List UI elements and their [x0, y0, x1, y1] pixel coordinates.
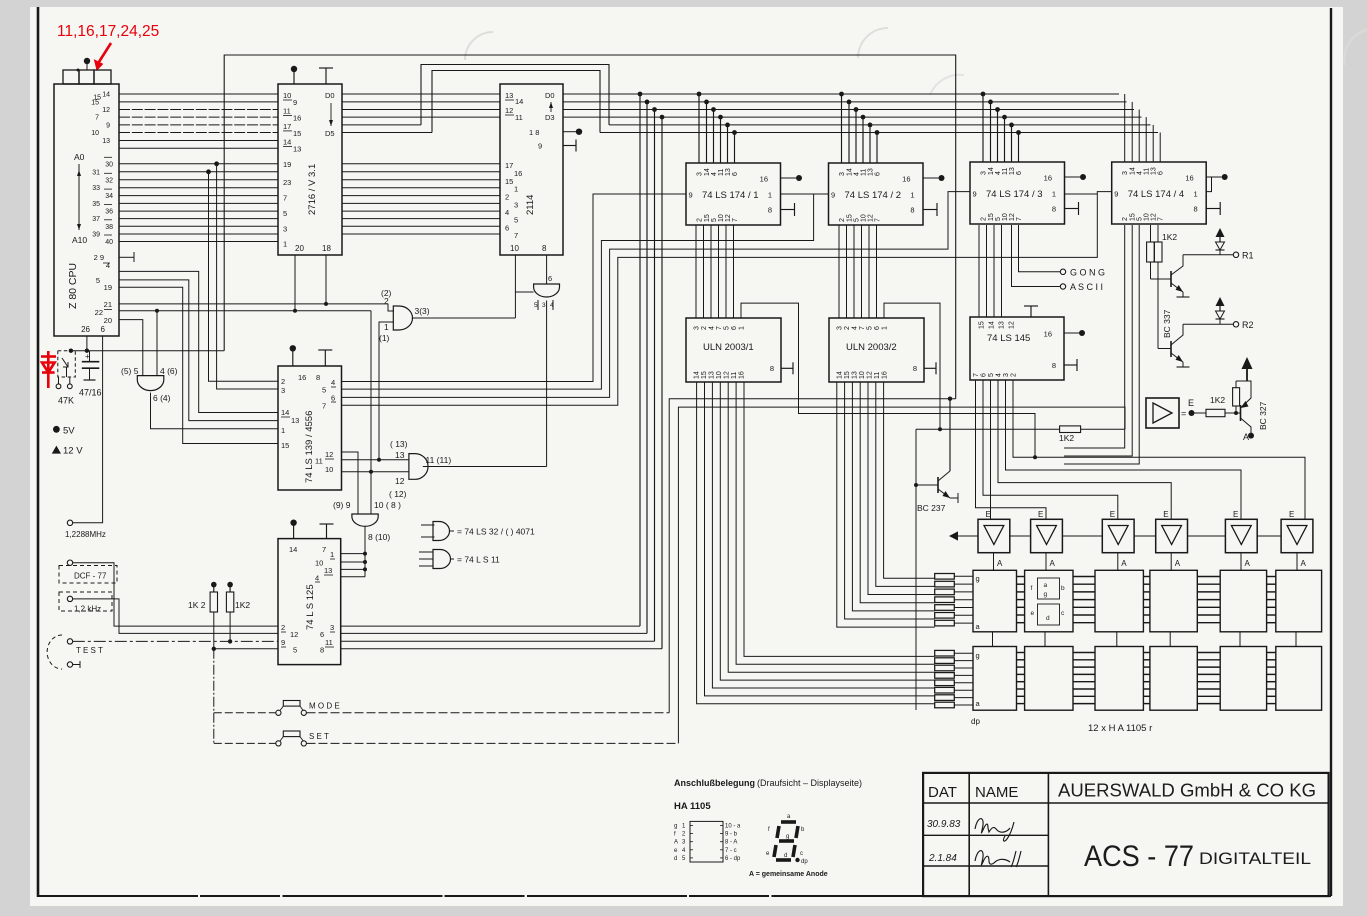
- svg-text:d: d: [674, 856, 677, 862]
- segment connector ladder row2: [935, 650, 955, 656]
- display module row1 D3: [1095, 570, 1143, 632]
- svg-text:3: 3: [1003, 373, 1010, 377]
- svg-text:R1: R1: [1242, 251, 1254, 261]
- svg-text:8: 8: [316, 373, 320, 382]
- svg-text:12: 12: [102, 107, 110, 114]
- svg-text:12 V: 12 V: [63, 446, 83, 457]
- svg-text:2114: 2114: [525, 195, 536, 215]
- wire 1.2kHz to 74LS125 pin12: [73, 599, 278, 634]
- latch 74LS174/1 body: [686, 163, 781, 225]
- junction dots on address lines feeding decoder: [206, 169, 211, 174]
- svg-text:12: 12: [868, 214, 875, 222]
- 74LS125 top power T: [326, 524, 328, 539]
- display module row1 D4: [1150, 570, 1197, 632]
- display module row1 D5: [1220, 570, 1266, 632]
- svg-text:21: 21: [104, 300, 112, 309]
- svg-text:E: E: [1233, 510, 1238, 519]
- svg-text:E: E: [1289, 510, 1294, 519]
- svg-text:9 - b: 9 - b: [725, 832, 738, 838]
- svg-text:Z 80 CPU: Z 80 CPU: [67, 263, 79, 309]
- svg-text:13: 13: [999, 321, 1006, 329]
- title block outer frame: [923, 773, 1329, 896]
- 74LS174/3 outputs into 74LS145: [978, 225, 980, 317]
- svg-text:10: 10: [91, 130, 99, 137]
- wire G2 lower input from below: [379, 322, 394, 460]
- svg-text:17: 17: [505, 161, 513, 170]
- svg-text:5: 5: [534, 302, 538, 309]
- resistor R 1K2 pair below 74LS174/4: [1150, 225, 1152, 242]
- buffer legend box with triangle: [1146, 398, 1179, 428]
- svg-text:g: g: [976, 574, 980, 583]
- wire 74LS174/4 spare outputs down: [1064, 225, 1125, 448]
- svg-text:32: 32: [105, 177, 113, 184]
- wire Z80 pin19 to 74LS139 pin15: [119, 287, 278, 443]
- svg-text:7: 7: [875, 218, 882, 222]
- svg-text:4: 4: [505, 208, 509, 217]
- svg-text:47/16: 47/16: [79, 388, 102, 398]
- svg-text:6: 6: [101, 325, 106, 334]
- svg-text:6: 6: [875, 172, 882, 176]
- wire Z80 pin22 branch to AND gate input: [156, 311, 158, 376]
- wire direct enable to buffer 1: [990, 380, 992, 519]
- svg-text:1: 1: [882, 326, 889, 330]
- svg-text:11: 11: [718, 169, 725, 176]
- wire address bus Z80 to 2716 (11 lines): [119, 163, 278, 165]
- svg-text:1: 1: [283, 240, 287, 249]
- wire select rail 4 from 74LS139 pin7 to 74LS174/4 pin9: [342, 192, 1112, 406]
- wire D4 stub left of 2114 bracket: [342, 124, 421, 126]
- svg-text:11: 11: [861, 169, 868, 176]
- svg-text:17: 17: [283, 122, 291, 131]
- svg-text:14: 14: [515, 97, 523, 106]
- diode D2 to R2 with 12V arrow: [1216, 297, 1225, 306]
- svg-text:1K2: 1K2: [1210, 395, 1225, 405]
- wire TEST to 74LS125 pin9: [73, 640, 278, 642]
- inter-digit segment hatches row1: [1017, 576, 1025, 578]
- svg-text:1: 1: [514, 185, 518, 194]
- svg-text:74 LS 174 / 2: 74 LS 174 / 2: [845, 190, 902, 201]
- svg-text:4: 4: [106, 261, 110, 270]
- display enable staircase wires: [976, 380, 1047, 519]
- svg-text:DCF - 77: DCF - 77: [74, 572, 107, 581]
- wire 74LS125 pin5 row: [214, 648, 278, 650]
- wire D4 bracket over 2114: [421, 65, 609, 125]
- svg-text:4 (6): 4 (6): [160, 366, 178, 376]
- svg-text:D0: D0: [545, 91, 555, 100]
- svg-text:AUERSWALD GmbH & CO KG: AUERSWALD GmbH & CO KG: [1058, 781, 1316, 801]
- wire G3 output to 2114 write gate: [423, 466, 547, 468]
- svg-text:10: 10: [1002, 213, 1009, 221]
- svg-text:16: 16: [514, 169, 522, 178]
- svg-text:14: 14: [283, 138, 291, 147]
- svg-text:74 LS 145: 74 LS 145: [987, 333, 1030, 344]
- svg-text:G O N G: G O N G: [1070, 268, 1105, 278]
- svg-text:16: 16: [1044, 330, 1052, 339]
- svg-text:15: 15: [844, 371, 851, 379]
- svg-text:11: 11: [515, 113, 523, 122]
- svg-text:1: 1: [1052, 190, 1056, 199]
- driver ULN2003/1 body: [686, 318, 781, 382]
- svg-text:5: 5: [293, 646, 297, 655]
- svg-text:g: g: [976, 651, 980, 660]
- svg-text:1K 2: 1K 2: [188, 600, 206, 610]
- svg-text:16: 16: [1044, 174, 1052, 183]
- svg-text:6 (4): 6 (4): [153, 393, 171, 403]
- diode D1 to R1 with 12V arrow: [1216, 228, 1225, 237]
- data bus drops into 74LS174/4 (line ends): [1124, 93, 1126, 95]
- svg-text:4: 4: [709, 326, 716, 330]
- svg-text:38: 38: [105, 224, 113, 231]
- ULN2003/1 outputs to lower display row (7 wires): [744, 382, 935, 656]
- display buffer B3 box: [1102, 519, 1134, 552]
- svg-text:4: 4: [995, 171, 1002, 175]
- svg-text:A10: A10: [72, 235, 87, 245]
- wire 74LS139 pin12 to G4 input: [342, 452, 359, 514]
- svg-text:E: E: [986, 510, 991, 519]
- svg-text:5: 5: [96, 276, 100, 285]
- svg-text:14: 14: [988, 167, 995, 175]
- svg-text:= 74 L S 11: = 74 L S 11: [457, 555, 500, 565]
- svg-text:74 LS 139 / 4556: 74 LS 139 / 4556: [304, 411, 315, 483]
- display module row2 D10: [1150, 647, 1197, 711]
- buffer B4 output wire to display: [1170, 553, 1172, 571]
- 74LS125 top 5V dot: [293, 523, 295, 539]
- or gate G2 3(3): [393, 306, 412, 330]
- wire upper bus Z80 to 2716 (8 lines): [119, 93, 278, 95]
- svg-text:30: 30: [105, 161, 113, 168]
- svg-text:Anschlußbelegung: Anschlußbelegung: [674, 778, 755, 788]
- switch MODE: [213, 649, 215, 744]
- svg-text:+: +: [85, 352, 90, 361]
- svg-text:30.9.83: 30.9.83: [927, 819, 961, 830]
- resistor 1K2 pullup left: [213, 585, 215, 592]
- wire 74LS125 enable links: [341, 553, 365, 555]
- svg-text:( 13): ( 13): [390, 439, 408, 449]
- svg-text:4: 4: [854, 172, 861, 176]
- svg-text:33: 33: [92, 185, 100, 192]
- svg-text:3: 3: [694, 326, 701, 330]
- wire address A0 to 74LS139 pin2: [209, 172, 279, 381]
- svg-text:11: 11: [1002, 168, 1009, 175]
- svg-text:8: 8: [768, 206, 772, 215]
- svg-text:12: 12: [725, 214, 732, 222]
- svg-text:E: E: [1038, 510, 1043, 519]
- svg-text:5: 5: [988, 373, 995, 377]
- ram U3 2114 body: [500, 84, 563, 255]
- svg-text:3(3): 3(3): [415, 306, 430, 316]
- svg-text:3: 3: [837, 326, 844, 330]
- buffer U5 74LS125 body: [278, 539, 341, 665]
- svg-text:36: 36: [105, 209, 113, 216]
- svg-text:2 9: 2 9: [94, 253, 104, 262]
- svg-text:3: 3: [1122, 171, 1129, 175]
- svg-text:11: 11: [874, 372, 881, 379]
- svg-text:D3: D3: [545, 113, 555, 122]
- svg-text:g: g: [674, 824, 677, 830]
- inter-digit segment hatches row2: [1017, 652, 1025, 654]
- svg-text:c: c: [800, 851, 803, 857]
- svg-text:2: 2: [1122, 217, 1129, 221]
- terminal ASCII: [1012, 225, 1061, 287]
- power legend 5V: [53, 426, 60, 433]
- display module row1 D2: [1025, 570, 1073, 632]
- display module row1 D1: [973, 570, 1017, 632]
- svg-text:10: 10: [861, 214, 868, 222]
- svg-text:5: 5: [283, 209, 287, 218]
- svg-text:10: 10: [510, 244, 519, 253]
- LED red indicator: [41, 351, 56, 388]
- svg-text:2: 2: [844, 326, 851, 330]
- svg-text:E: E: [1188, 398, 1194, 408]
- svg-text:16: 16: [1185, 174, 1193, 183]
- verticals 74LS174/2 outputs to ULN2003/2 inputs: [838, 225, 840, 318]
- svg-text:A: A: [1243, 432, 1249, 442]
- svg-text:(5) 5: (5) 5: [121, 366, 139, 376]
- and gate G3 11(11): [409, 454, 428, 480]
- transistor BC327 legend: [1236, 412, 1241, 414]
- svg-text:13: 13: [291, 416, 299, 425]
- svg-text:13: 13: [709, 371, 716, 379]
- svg-text:12: 12: [867, 371, 874, 379]
- svg-text:7: 7: [95, 115, 99, 122]
- svg-text:DAT: DAT: [928, 784, 957, 801]
- svg-text:12: 12: [724, 371, 731, 379]
- svg-text:DIGITALTEIL: DIGITALTEIL: [1199, 849, 1311, 868]
- svg-text:dp: dp: [801, 859, 808, 865]
- latch 74LS174/4 body: [1112, 162, 1207, 224]
- svg-text:40: 40: [105, 239, 113, 246]
- display buffer B1 box: [978, 519, 1010, 552]
- terminal DCF-77 with dashed box: [67, 560, 72, 565]
- legend 12V arrow at BC327 collector: [1236, 380, 1247, 382]
- svg-text:3: 3: [281, 386, 285, 395]
- power legend 12V: [52, 446, 61, 454]
- svg-text:2716 / V 3.1: 2716 / V 3.1: [307, 164, 318, 215]
- svg-text:11,16,17,24,25: 11,16,17,24,25: [57, 23, 159, 40]
- wire 2716 pin18 stub down: [325, 255, 327, 304]
- terminal TEST with dashed frame: [67, 639, 72, 644]
- svg-text:35: 35: [92, 201, 100, 208]
- svg-text:1K2: 1K2: [1059, 433, 1074, 443]
- terminal 1.2kHz with dashed box: [67, 596, 72, 601]
- title block row lines: [923, 802, 1329, 804]
- svg-text:14: 14: [704, 168, 711, 176]
- svg-text:5: 5: [854, 218, 861, 222]
- svg-text:14: 14: [1130, 167, 1137, 175]
- svg-text:16: 16: [298, 373, 306, 382]
- wire Z80 pin4 to 74LS139 pin14: [119, 271, 278, 412]
- 74LS145 top power T: [1030, 306, 1032, 317]
- terminal GONG: [1019, 225, 1061, 272]
- svg-text:22: 22: [95, 308, 103, 317]
- svg-text:d: d: [1046, 615, 1050, 622]
- verticals 74LS174/1 outputs to ULN2003/1 inputs: [695, 225, 697, 318]
- wire top rail from CPU reset line: [224, 55, 956, 399]
- terminal R1: [1183, 254, 1233, 256]
- latch 74LS174/3 body: [970, 162, 1065, 224]
- svg-text:D0: D0: [325, 91, 335, 100]
- wire DCF-77 to 74LS125 pin2: [73, 563, 278, 626]
- wire 74LS174/4 pin16 to pin1 bracket: [1206, 177, 1211, 192]
- svg-text:f: f: [1031, 585, 1033, 592]
- svg-text:8 - A: 8 - A: [725, 840, 737, 846]
- drawing frame bottom border: [38, 895, 1331, 897]
- svg-text:15: 15: [701, 371, 708, 379]
- svg-text:39: 39: [92, 232, 100, 239]
- wire 74LS139 pin11 to G3 input: [342, 459, 409, 461]
- svg-text:9: 9: [689, 191, 693, 200]
- svg-text:5: 5: [724, 326, 731, 330]
- switch SET: [214, 742, 276, 744]
- svg-text:2: 2: [1011, 373, 1018, 377]
- svg-text:3: 3: [330, 623, 334, 632]
- svg-text:8: 8: [320, 646, 324, 655]
- svg-text:1: 1: [281, 426, 285, 435]
- legend gate = 74LS32 / ()4071: [433, 522, 450, 541]
- svg-text:8: 8: [1194, 205, 1198, 214]
- svg-text:7: 7: [283, 194, 287, 203]
- svg-text:5: 5: [514, 216, 518, 225]
- wire Z80 pin5 to 74LS139 pin13: [119, 280, 278, 421]
- svg-text:16: 16: [882, 371, 889, 379]
- svg-text:13: 13: [852, 371, 859, 379]
- svg-text:2.1.84: 2.1.84: [928, 853, 957, 864]
- svg-text:10: 10: [283, 91, 291, 100]
- svg-text:14: 14: [102, 92, 110, 99]
- svg-text:BC 337: BC 337: [1162, 309, 1172, 338]
- wire pin21 jog into G2 input: [388, 304, 394, 311]
- transistor Q3 BC237: [937, 477, 939, 493]
- HA1105 pin diagram box: [690, 821, 723, 862]
- svg-text:3: 3: [839, 172, 846, 176]
- svg-text:12: 12: [395, 476, 405, 486]
- svg-text:M O D E: M O D E: [309, 702, 340, 711]
- wire Z80 pin6 clock down to crystal terminal: [73, 336, 103, 523]
- wire data bus 2716 to 2114 (4 lines): [342, 93, 500, 95]
- svg-text:1: 1: [1194, 190, 1198, 199]
- wire D5 stub left of 2114 bracket: [342, 132, 432, 134]
- svg-text:13: 13: [324, 566, 332, 575]
- svg-text:74 LS 174 / 3: 74 LS 174 / 3: [986, 189, 1043, 200]
- svg-text:A: A: [1245, 559, 1251, 568]
- svg-text:4: 4: [315, 574, 319, 583]
- svg-text:6: 6: [548, 274, 552, 283]
- wire collector feed vertical to BC237 from MODE rail: [949, 399, 951, 471]
- svg-text:4: 4: [1137, 171, 1144, 175]
- svg-text:6: 6: [732, 172, 739, 176]
- svg-text:BC 237: BC 237: [917, 503, 946, 513]
- svg-text:3: 3: [981, 171, 988, 175]
- svg-text:3: 3: [697, 172, 704, 176]
- drawing frame right border: [1330, 8, 1332, 896]
- svg-text:9: 9: [293, 98, 297, 107]
- svg-text:14: 14: [281, 408, 289, 417]
- svg-text:15: 15: [1130, 213, 1137, 221]
- terminal R2: [1183, 323, 1233, 325]
- legend resistor 1K2 horizontal: [1206, 409, 1225, 416]
- svg-text:D5: D5: [325, 129, 335, 138]
- svg-text:13: 13: [868, 168, 875, 176]
- wire 2114 pin10 into G5: [515, 292, 533, 318]
- svg-text:7: 7: [716, 326, 723, 330]
- svg-text:S E T: S E T: [309, 732, 329, 741]
- wire select rail 2 from 74LS139 pin5 to 74LS174/2 pin9: [342, 194, 829, 389]
- wire pin22 vertical to G4 input: [370, 311, 372, 514]
- wire Z80 pin26 down to reset rail: [86, 336, 88, 351]
- ULN2003/2 outputs to upper display row (7 wires): [884, 382, 935, 578]
- svg-text:6: 6: [874, 326, 881, 330]
- svg-text:13: 13: [293, 145, 301, 154]
- svg-text:a: a: [1044, 582, 1048, 589]
- wire Z80 pin20 to AND gate input: [119, 320, 143, 376]
- svg-text:2: 2: [981, 217, 988, 221]
- svg-text:8: 8: [1052, 205, 1056, 214]
- wire 2114 gate vertical: [546, 301, 548, 467]
- svg-text:3: 3: [283, 224, 287, 233]
- svg-text:12 x H A 1105 r: 12 x H A 1105 r: [1088, 723, 1152, 734]
- 2716 5V dot: [293, 69, 295, 84]
- svg-text:A S C I I: A S C I I: [1070, 282, 1103, 292]
- wire reset rail: [71, 350, 224, 352]
- title block column dividers: [968, 773, 970, 896]
- svg-text:13: 13: [102, 138, 110, 145]
- svg-text:10 - a: 10 - a: [725, 824, 741, 830]
- wire address A1 to 74LS139 pin3: [217, 164, 278, 389]
- svg-text:15: 15: [979, 321, 986, 329]
- svg-text:7: 7: [1016, 217, 1023, 221]
- svg-text:ACS - 77: ACS - 77: [1084, 840, 1194, 873]
- buffer chain links: [1010, 535, 1031, 537]
- svg-text:A: A: [1121, 559, 1127, 568]
- legend vertical resistor: [1235, 406, 1237, 413]
- svg-text:11: 11: [1144, 168, 1151, 175]
- svg-text:dp: dp: [971, 717, 980, 726]
- Z80 top connector squares pins 11,16,17,24,25: [63, 70, 79, 84]
- svg-text:11: 11: [731, 372, 738, 379]
- svg-text:4: 4: [996, 373, 1003, 377]
- svg-text:7: 7: [859, 326, 866, 330]
- drawing frame left border: [37, 7, 40, 897]
- buffer B6 output wire to display: [1296, 553, 1298, 571]
- svg-text:23: 23: [283, 178, 291, 187]
- svg-text:12: 12: [1009, 213, 1016, 221]
- svg-text:5: 5: [867, 326, 874, 330]
- svg-text:ULN 2003/2: ULN 2003/2: [846, 342, 897, 353]
- display buffer B2 box: [1031, 519, 1063, 552]
- svg-text:10: 10: [315, 559, 323, 568]
- and gate G4 (9)9 10(8) pointing down: [352, 514, 378, 526]
- resistor 1K2 horizontal near BC237: [1060, 426, 1081, 433]
- svg-text:7: 7: [1158, 217, 1165, 221]
- svg-text:20: 20: [295, 244, 304, 253]
- cpu U1 Z80 CPU body: [54, 84, 119, 336]
- row1 to row2 digit links: [992, 632, 994, 647]
- svg-text:11: 11: [325, 638, 333, 647]
- data bus drops into 74LS174/3 with junction dots: [982, 94, 984, 162]
- legend gate = 74LS11: [433, 550, 451, 569]
- svg-text:9: 9: [973, 190, 977, 199]
- svg-text:5: 5: [1137, 217, 1144, 221]
- buffer B3 output wire to display: [1117, 553, 1119, 571]
- svg-text:1K2: 1K2: [235, 600, 250, 610]
- svg-text:6: 6: [1158, 171, 1165, 175]
- wire SET to right-side rail: [307, 742, 679, 744]
- svg-text:19: 19: [104, 283, 112, 292]
- svg-text:R2: R2: [1242, 320, 1254, 330]
- svg-text:74 LS 174 / 4: 74 LS 174 / 4: [1128, 189, 1185, 200]
- wire 74LS139 pin10 to G3 input: [342, 471, 409, 473]
- svg-text:47K: 47K: [58, 396, 74, 406]
